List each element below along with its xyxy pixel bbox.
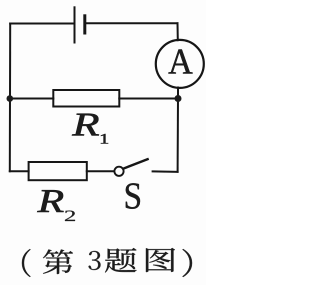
wire middle left segment [10,98,54,100]
caption char Ti(题) [105,248,137,273]
wire right vertical into ammeter [177,23,179,40]
wire bottom left segment [10,170,29,172]
wire switch to right corner [153,170,178,172]
caption char Tu(图) [146,248,175,272]
ammeter label A [169,50,193,74]
resistor R1 box [53,90,119,107]
switch S lever arm [123,159,147,168]
wire left vertical [9,24,11,172]
wire top right segment [86,22,177,24]
ammeter U1 circle [156,40,204,88]
wire R2 to switch [87,170,115,172]
wire top left segment [10,23,73,25]
label R1 subscript 1 [101,134,108,144]
switch label S [126,183,140,209]
resistor R2 box [29,162,87,180]
wire ammeter to junction [177,88,179,99]
node junction left [7,95,14,102]
wire middle right segment [119,98,178,100]
switch S pivot circle [114,167,123,176]
label R2 subscript 2 [65,211,75,221]
battery B1 short plate (-) [83,16,86,33]
resistor label R2 (R) [37,190,63,212]
node junction right [175,95,182,102]
caption char Di(第) [43,249,73,274]
resistor label R1 (R) [72,114,99,136]
wire right vertical bottom [177,99,179,172]
caption open paren [22,249,30,277]
caption close paren [183,249,193,277]
battery B1 long plate (+) [74,7,76,42]
caption digit 3 [89,251,101,270]
